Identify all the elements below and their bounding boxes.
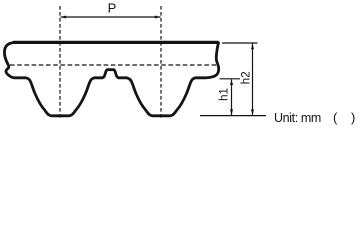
wire P dimension line [61, 16, 161, 18]
svg-text:h1: h1 [219, 88, 231, 101]
svg-text:P: P [108, 0, 117, 15]
wire h1 dimension line [231, 80, 233, 116]
svg-text:Unit: mm: Unit: mm [274, 111, 321, 125]
wire h1 extension line [220, 78, 241, 80]
svg-text:(: ( [333, 110, 338, 125]
wire belt top surface [13, 41, 219, 44]
wire h2 dimension line [252, 44, 254, 115]
node centerline tooth 2 [160, 6, 162, 120]
node centerline tooth 1 [59, 6, 61, 120]
node pitch line [10, 64, 216, 66]
wire h2 extension line [222, 42, 258, 44]
svg-text:): ) [351, 110, 355, 125]
wire belt profile outline [4, 43, 218, 116]
svg-text:h2: h2 [241, 71, 253, 84]
wire baseline (tooth tip line) [200, 115, 266, 117]
